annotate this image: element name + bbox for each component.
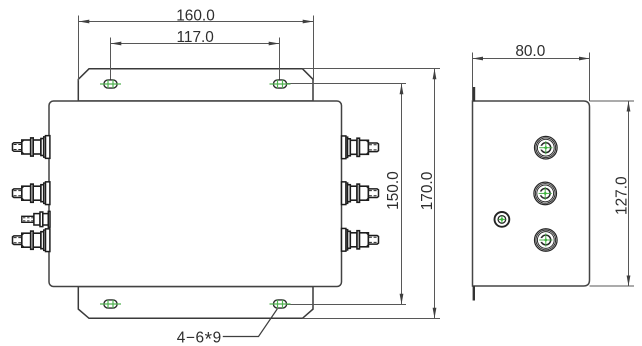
ground terminal L3 <box>22 211 50 227</box>
bottom flange <box>78 287 313 319</box>
dimension 150.0 <box>287 84 406 305</box>
svg-text:127.0: 127.0 <box>614 176 631 215</box>
terminal L4 <box>13 229 50 252</box>
side terminal S1 <box>535 136 558 159</box>
dimension 127.0 <box>590 101 635 286</box>
terminal R3 <box>342 228 379 251</box>
svg-text:150.0: 150.0 <box>385 171 402 210</box>
dimension 117.0 <box>111 29 280 80</box>
svg-text:4−6*9: 4−6*9 <box>177 329 222 346</box>
svg-text:80.0: 80.0 <box>515 43 545 60</box>
terminal R1 <box>342 136 379 159</box>
mounting hole H1 <box>100 80 121 88</box>
svg-text:170.0: 170.0 <box>419 172 436 211</box>
terminal R2 <box>342 182 379 205</box>
terminal L1 <box>13 136 50 159</box>
side flange tab bottom <box>473 286 475 301</box>
side flange tab top <box>473 87 475 102</box>
side ground stud <box>495 212 510 227</box>
front view body <box>49 101 342 287</box>
mounting hole H2 <box>270 80 291 88</box>
side view body <box>473 101 590 286</box>
svg-text:117.0: 117.0 <box>177 29 214 46</box>
dimension 80.0 <box>473 43 590 101</box>
slot label 4-6*9 text <box>177 329 222 346</box>
dimension 160.0 <box>79 8 314 81</box>
side terminal S2 <box>534 182 557 205</box>
mounting hole H3 <box>100 300 121 308</box>
slot label 4-6*9 leader <box>223 309 277 337</box>
top flange <box>78 69 313 101</box>
side terminal S3 <box>535 229 558 252</box>
terminal L2 <box>13 182 50 205</box>
dimension 170.0 <box>303 69 441 319</box>
mounting hole H4 <box>270 300 291 308</box>
svg-text:160.0: 160.0 <box>176 8 215 25</box>
